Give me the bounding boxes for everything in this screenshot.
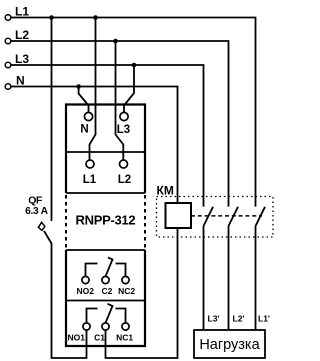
contactor contact L2 blade [229, 207, 239, 226]
svg-text:Нагрузка: Нагрузка [199, 337, 260, 353]
terminal L3 [5, 62, 11, 68]
wire L2 to load [228, 226, 230, 330]
svg-text:L2': L2' [233, 314, 245, 324]
wire QF drop from L1 [51, 18, 53, 222]
svg-text:КМ: КМ [157, 184, 174, 198]
wire C1 to KM coil [106, 228, 178, 358]
wire N bus [11, 87, 178, 204]
svg-text:L1: L1 [15, 5, 29, 19]
node L1 device tap [93, 15, 98, 20]
terminal NO1 [83, 323, 90, 330]
device dashed side left [65, 195, 67, 249]
svg-text:N: N [80, 124, 88, 136]
node N device tap [76, 84, 81, 89]
load box [194, 330, 265, 358]
svg-text:QF: QF [28, 195, 43, 207]
wire L1 bus [11, 18, 256, 207]
terminal C2 [102, 276, 109, 283]
breaker QF head [38, 222, 45, 230]
wire L1 to device [90, 18, 96, 161]
svg-text:L2: L2 [118, 174, 131, 186]
svg-text:C1: C1 [94, 333, 105, 343]
svg-text:L3: L3 [15, 52, 29, 66]
contact C2 blade [106, 257, 113, 276]
node L1-QF tap [49, 15, 54, 20]
terminal L2 of device [120, 160, 128, 168]
svg-text:6.3 A: 6.3 A [25, 206, 48, 217]
svg-text:L1: L1 [83, 174, 97, 186]
device dashed side right [144, 195, 146, 249]
contactor contact L1 blade [256, 207, 266, 226]
svg-text:L3: L3 [117, 124, 130, 136]
terminal L2 [5, 38, 11, 44]
device divider 1 [66, 151, 145, 153]
svg-text:L3': L3' [208, 314, 220, 324]
terminal NC2 [122, 276, 129, 283]
terminal L3 of device [120, 112, 128, 120]
wire L2 to device [116, 41, 124, 160]
contactor KM coil [166, 203, 192, 228]
wire L3 bus [11, 65, 204, 207]
terminal NO2 [82, 276, 89, 283]
svg-text:NC1: NC1 [116, 333, 133, 343]
wire L3 to load [203, 226, 205, 330]
contact NC2 fixed [116, 264, 126, 277]
contact NO2 fixed [86, 264, 98, 277]
svg-text:L1': L1' [258, 314, 270, 324]
svg-text:NO2: NO2 [76, 286, 94, 296]
contactor contact L3 blade [204, 207, 214, 226]
device divider 4 [66, 300, 145, 302]
wire N to device [79, 87, 89, 113]
contact C1 blade [106, 304, 113, 323]
svg-text:NO1: NO1 [68, 333, 86, 343]
terminal N of device [84, 112, 92, 120]
terminal C1 [102, 323, 109, 330]
device divider 3 [66, 249, 145, 251]
node L3 device tap [132, 63, 137, 68]
svg-text:C2: C2 [101, 286, 112, 296]
device divider 2 [66, 192, 145, 194]
svg-text:RNPP-312: RNPP-312 [76, 213, 136, 228]
terminal L1 of device [86, 160, 94, 168]
terminal L1 [5, 15, 11, 21]
wire QF to NO1 [52, 243, 87, 358]
contactor KM dotted frame [157, 197, 274, 238]
svg-text:NC2: NC2 [118, 286, 135, 296]
svg-text:L2: L2 [15, 28, 29, 42]
wire L1 to load [255, 226, 257, 330]
svg-text:N: N [16, 74, 25, 88]
wire L3 to device [124, 65, 134, 113]
breaker QF blade [44, 231, 52, 244]
wire L2 bus [11, 41, 229, 207]
contact NC1 fixed [116, 309, 126, 323]
contact NO1 fixed [87, 309, 98, 323]
terminal NC1 [122, 323, 129, 330]
contactor KM linkage [191, 215, 262, 217]
device RNPP-312 box [66, 105, 145, 347]
terminal N [5, 84, 11, 90]
node L2 device tap [113, 39, 118, 44]
